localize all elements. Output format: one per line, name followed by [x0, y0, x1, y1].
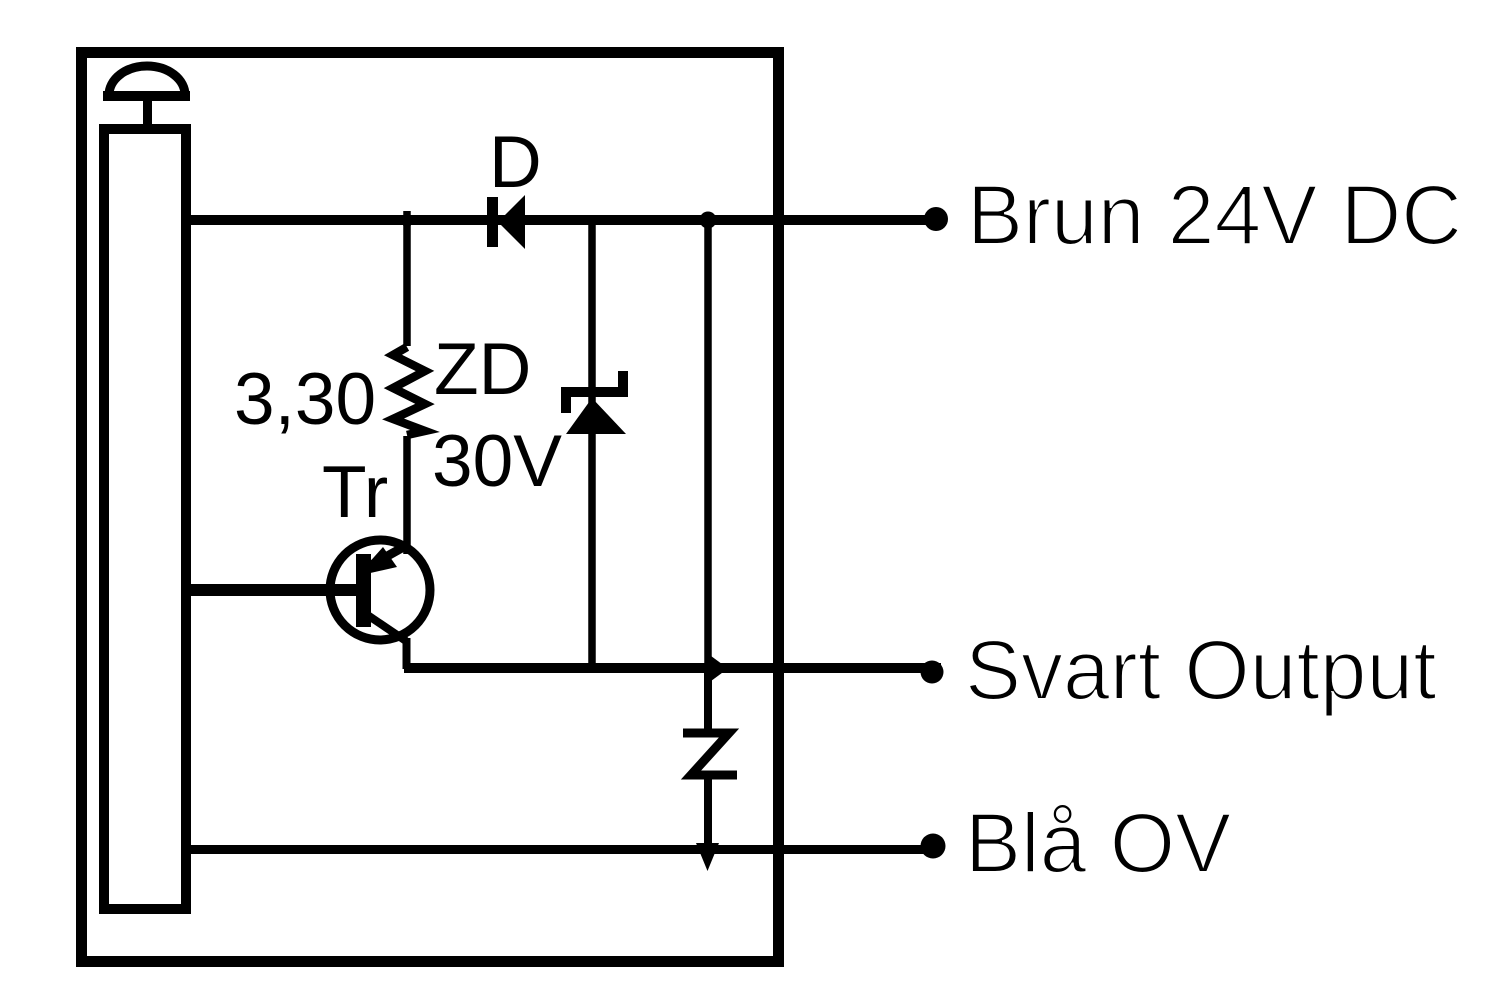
dome base bar	[103, 91, 190, 101]
svg-text:Tr: Tr	[322, 452, 388, 533]
transistor base bar	[356, 554, 371, 627]
sensor housing outer box	[82, 53, 779, 962]
diode D cathode bar	[487, 197, 498, 247]
node: junction tick at resistor branch	[403, 211, 411, 226]
svg-text:3,30: 3,30	[234, 359, 376, 440]
wire: branch down to resistor	[403, 220, 411, 346]
wire: load lower lead	[704, 775, 712, 845]
diode D anode triangle	[498, 195, 525, 249]
wire: collector down to output rail	[403, 638, 411, 669]
arrow at output junction	[707, 653, 728, 684]
resistor 3,30 zigzag	[393, 347, 425, 435]
svg-text:Blå OV: Blå OV	[965, 796, 1231, 890]
wire: resistor to transistor emitter	[403, 436, 411, 554]
sensing dome	[109, 66, 185, 95]
svg-text:D: D	[489, 122, 542, 203]
svg-text:30V: 30V	[432, 421, 562, 502]
transistor collector diagonal (bottom)	[366, 614, 406, 641]
zener diode ZD triangle	[566, 398, 626, 434]
sensor element body (tall rectangle)	[104, 129, 186, 909]
terminal dot Svart	[921, 661, 944, 684]
svg-text:Svart Output: Svart Output	[965, 623, 1437, 717]
zener diode ZD bar (z-shaped)	[566, 371, 623, 413]
node: junction dot load branch	[700, 212, 717, 229]
svg-text:ZD: ZD	[434, 329, 531, 410]
transistor Tr circle	[330, 540, 430, 640]
wire: zener branch vertical	[588, 220, 596, 664]
terminal dot Blå	[921, 834, 946, 859]
load Z symbol	[683, 733, 737, 775]
wire: output rail to Svart terminal	[404, 663, 941, 673]
wire: base from sensor element	[186, 584, 359, 596]
arrow at 0V junction	[696, 843, 719, 871]
transistor emitter diagonal (top)	[364, 544, 409, 569]
dome stem	[143, 99, 152, 127]
svg-text:Brun 24V DC: Brun 24V DC	[967, 168, 1462, 262]
transistor emitter arrow	[357, 547, 397, 576]
wire: load branch vertical from supply rail	[704, 220, 712, 663]
wire: top supply rail to Brun terminal	[186, 215, 941, 225]
terminal dot Brun	[924, 207, 948, 231]
wire: 0V rail from sensor element to Blå terminal	[186, 845, 941, 854]
wire: load upper lead	[704, 668, 712, 730]
